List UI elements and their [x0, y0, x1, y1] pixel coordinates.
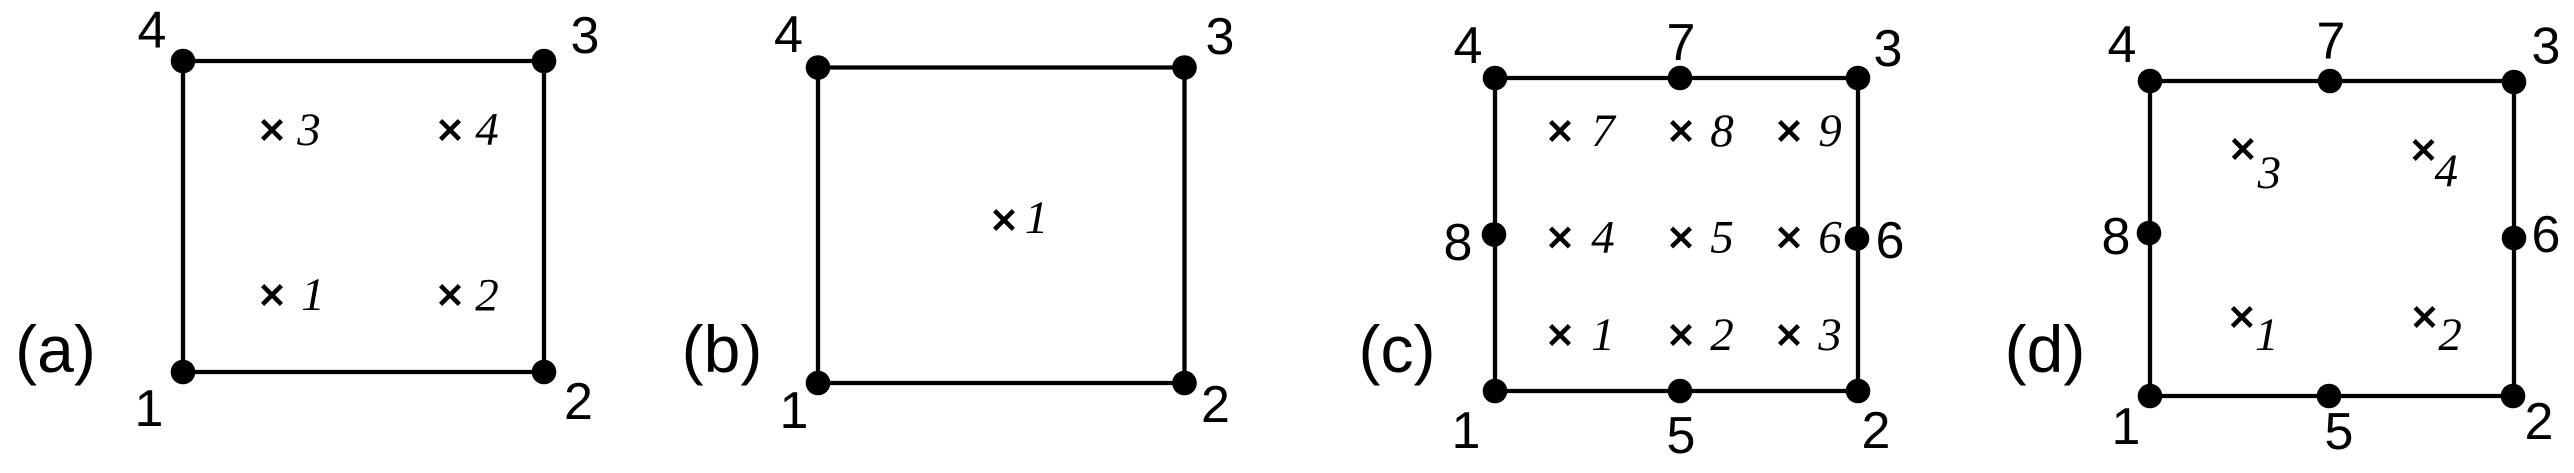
svg-text:8: 8	[1444, 214, 1473, 272]
element (a) gauss point 2 cross	[441, 286, 460, 305]
element (d) node 3 dot	[2502, 70, 2527, 95]
element (c) gauss point 8 cross	[1672, 122, 1691, 141]
element (d) left edge wire	[2148, 81, 2152, 396]
element (d) node 1 dot	[2138, 384, 2163, 409]
element (c) node 8 dot	[1482, 222, 1507, 247]
svg-text:3: 3	[2257, 147, 2282, 199]
svg-text:4: 4	[1591, 212, 1615, 264]
element (d) node 2 dot	[2501, 384, 2526, 409]
element (a) left edge wire	[181, 61, 185, 372]
svg-text:2: 2	[2438, 309, 2462, 361]
element (c) top edge wire	[1495, 76, 1858, 80]
element (c) node 5 dot	[1668, 379, 1693, 404]
element (d) node 6 dot	[2502, 226, 2527, 251]
element (d) bottom edge wire	[2150, 394, 2514, 398]
svg-text:1: 1	[780, 382, 809, 440]
element (d) right edge wire	[2512, 81, 2516, 396]
svg-text:6: 6	[1876, 212, 1905, 270]
element (c) gauss point 2 cross	[1672, 326, 1691, 345]
svg-text:(d): (d)	[2005, 312, 2086, 386]
svg-text:1: 1	[1025, 192, 1049, 244]
element (d) node 7 dot	[2318, 69, 2343, 94]
element (b) left edge wire	[816, 68, 820, 384]
svg-text:5: 5	[2325, 403, 2354, 461]
element (b) gauss point 1 cross	[995, 211, 1014, 230]
element (d) node 4 dot	[2138, 69, 2163, 94]
element (d) node 5 dot	[2317, 384, 2342, 409]
svg-text:9: 9	[1818, 105, 1842, 157]
svg-text:1: 1	[135, 380, 164, 438]
svg-text:2: 2	[1201, 376, 1230, 434]
element (a) node 4 dot	[171, 49, 196, 74]
element (c) gauss point 9 cross	[1780, 122, 1799, 141]
svg-text:1: 1	[2255, 309, 2279, 361]
svg-text:1: 1	[1591, 309, 1615, 361]
element (d) gauss point 1 cross	[2232, 308, 2251, 327]
element (c) node 2 dot	[1846, 379, 1871, 404]
svg-text:(c): (c)	[1359, 312, 1436, 386]
svg-text:5: 5	[1710, 212, 1734, 264]
element (d) gauss point 2 cross	[2415, 308, 2434, 327]
svg-text:1: 1	[301, 269, 325, 321]
svg-text:3: 3	[571, 7, 600, 65]
svg-text:3: 3	[2532, 18, 2561, 76]
element (c) node 6 dot	[1845, 226, 1870, 251]
svg-text:3: 3	[1874, 20, 1903, 78]
svg-text:4: 4	[2435, 145, 2459, 197]
element (b) node 1 dot	[806, 371, 831, 396]
svg-text:2: 2	[475, 270, 499, 322]
svg-text:4: 4	[475, 104, 499, 156]
element (c) node 1 dot	[1483, 379, 1508, 404]
element (c) gauss point 4 cross	[1551, 228, 1570, 247]
element (d) gauss point 4 cross	[2414, 141, 2433, 160]
element (a) node 3 dot	[532, 49, 557, 74]
element (d) gauss point 3 cross	[2233, 140, 2252, 159]
element (b) right edge wire	[1182, 68, 1186, 384]
svg-text:3: 3	[296, 104, 321, 156]
element (c) gauss point 5 cross	[1672, 228, 1691, 247]
svg-text:4: 4	[774, 6, 803, 64]
svg-text:7: 7	[1667, 14, 1696, 72]
svg-text:4: 4	[1454, 17, 1483, 75]
svg-text:4: 4	[138, 2, 167, 60]
svg-text:4: 4	[2108, 16, 2137, 74]
svg-text:6: 6	[2532, 206, 2561, 264]
svg-text:5: 5	[1667, 407, 1696, 465]
element (b) top edge wire	[818, 65, 1185, 69]
svg-text:(a): (a)	[15, 312, 96, 386]
element (c) node 3 dot	[1846, 66, 1871, 91]
element (b) node 4 dot	[806, 55, 831, 80]
element (c) node 4 dot	[1483, 66, 1508, 91]
svg-text:7: 7	[2317, 13, 2346, 71]
element (b) node 2 dot	[1172, 371, 1197, 396]
svg-text:7: 7	[1591, 105, 1617, 157]
element (c) node 7 dot	[1668, 66, 1693, 91]
element (a) node 2 dot	[532, 360, 557, 385]
element (c) right edge wire	[1856, 78, 1860, 391]
svg-text:2: 2	[2525, 393, 2554, 451]
element (b) bottom edge wire	[818, 381, 1185, 385]
element (d) top edge wire	[2150, 79, 2514, 83]
svg-text:1: 1	[2112, 398, 2141, 456]
element (a) gauss point 3 cross	[263, 121, 282, 140]
element (a) gauss point 4 cross	[441, 121, 460, 140]
element (a) top edge wire	[183, 59, 544, 63]
element (a) gauss point 1 cross	[263, 286, 282, 305]
element (a) right edge wire	[542, 61, 546, 372]
element (c) gauss point 3 cross	[1780, 326, 1799, 345]
element (d) node 8 dot	[2137, 221, 2162, 246]
svg-text:2: 2	[1710, 309, 1734, 361]
element (c) bottom edge wire	[1495, 389, 1858, 393]
element (c) gauss point 6 cross	[1780, 228, 1799, 247]
element (c) gauss point 7 cross	[1551, 122, 1570, 141]
svg-text:6: 6	[1818, 212, 1842, 264]
svg-text:3: 3	[1206, 8, 1235, 66]
svg-text:3: 3	[1817, 309, 1842, 361]
svg-text:8: 8	[1710, 105, 1734, 157]
element (a) node 1 dot	[171, 360, 196, 385]
svg-text:2: 2	[564, 373, 593, 431]
element (b) node 3 dot	[1172, 55, 1197, 80]
svg-text:2: 2	[1862, 402, 1891, 460]
element (c) left edge wire	[1493, 78, 1497, 391]
element (c) gauss point 1 cross	[1551, 326, 1570, 345]
svg-text:(b): (b)	[682, 312, 763, 386]
svg-text:1: 1	[1452, 402, 1481, 460]
svg-text:8: 8	[2102, 208, 2131, 266]
element (a) bottom edge wire	[183, 370, 544, 374]
